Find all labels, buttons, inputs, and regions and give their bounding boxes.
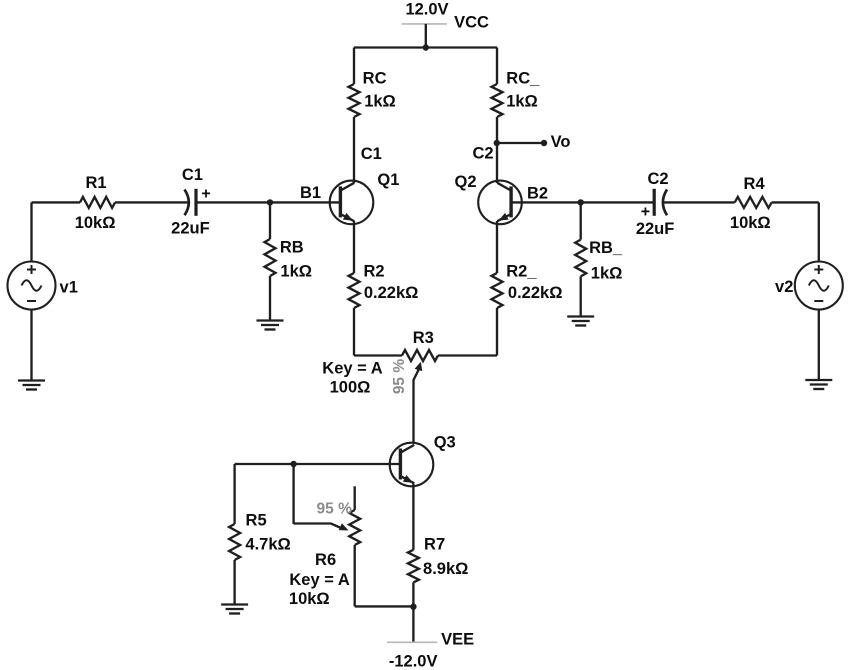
svg-text:Q3: Q3 — [434, 434, 456, 452]
svg-text:95 %: 95 % — [317, 500, 353, 517]
svg-text:R4: R4 — [744, 175, 766, 193]
svg-text:R6: R6 — [315, 551, 336, 569]
svg-text:RB: RB — [280, 239, 304, 257]
svg-text:+: + — [641, 203, 650, 220]
svg-text:R7: R7 — [424, 536, 445, 554]
svg-text:+: + — [201, 185, 210, 202]
svg-text:RC_: RC_ — [506, 70, 540, 88]
svg-text:8.9kΩ: 8.9kΩ — [423, 560, 468, 578]
svg-text:Key = A: Key = A — [289, 571, 349, 589]
svg-text:C1: C1 — [182, 166, 203, 184]
svg-text:Q1: Q1 — [377, 171, 399, 189]
svg-text:1kΩ: 1kΩ — [280, 263, 312, 281]
svg-text:22uF: 22uF — [636, 220, 675, 238]
svg-text:R1: R1 — [85, 174, 106, 192]
svg-text:-12.0V: -12.0V — [389, 652, 438, 670]
svg-text:100Ω: 100Ω — [330, 379, 371, 397]
svg-text:1kΩ: 1kΩ — [591, 264, 623, 282]
svg-text:R3: R3 — [413, 329, 434, 347]
svg-text:R2: R2 — [363, 263, 384, 281]
svg-text:95 %: 95 % — [391, 359, 408, 395]
svg-text:R2_: R2_ — [506, 263, 537, 281]
svg-text:4.7kΩ: 4.7kΩ — [245, 536, 290, 554]
svg-text:Q2: Q2 — [454, 173, 476, 191]
svg-text:B2: B2 — [527, 185, 548, 203]
svg-text:B1: B1 — [300, 184, 321, 202]
svg-text:RB_: RB_ — [589, 239, 623, 257]
svg-text:1kΩ: 1kΩ — [506, 92, 538, 110]
svg-text:0.22kΩ: 0.22kΩ — [508, 284, 563, 302]
svg-text:C2: C2 — [472, 145, 493, 163]
svg-text:R5: R5 — [246, 512, 267, 530]
svg-text:Vo: Vo — [551, 133, 571, 151]
svg-text:10kΩ: 10kΩ — [730, 214, 771, 232]
svg-text:v2: v2 — [775, 278, 793, 296]
svg-text:v1: v1 — [60, 279, 78, 297]
svg-text:VEE: VEE — [441, 631, 474, 649]
svg-text:VCC: VCC — [454, 14, 489, 32]
svg-text:Key = A: Key = A — [322, 360, 382, 378]
svg-text:C1: C1 — [361, 145, 382, 163]
svg-text:1kΩ: 1kΩ — [364, 92, 396, 110]
svg-text:C2: C2 — [647, 170, 668, 188]
svg-text:10kΩ: 10kΩ — [289, 590, 330, 608]
svg-text:10kΩ: 10kΩ — [75, 214, 116, 232]
svg-text:RC: RC — [363, 70, 387, 88]
svg-text:22uF: 22uF — [171, 220, 210, 238]
svg-text:0.22kΩ: 0.22kΩ — [364, 284, 419, 302]
svg-text:12.0V: 12.0V — [405, 1, 448, 19]
